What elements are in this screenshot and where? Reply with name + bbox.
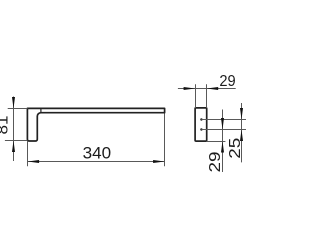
dimension 29 top: left extension line xyxy=(195,84,197,108)
dimension 340: right extension line xyxy=(164,114,166,167)
dimension 81: dimension line xyxy=(13,97,15,162)
svg-text:29: 29 xyxy=(219,73,235,90)
dimension 340: dimension line xyxy=(28,161,165,163)
screw hole top xyxy=(200,118,202,120)
screw hole bottom xyxy=(200,128,202,130)
plate bottom extension line xyxy=(207,141,226,143)
dimension 29 top: left arrow xyxy=(184,87,196,90)
dimension 29 top: right arrow xyxy=(207,87,219,90)
svg-text:29: 29 xyxy=(207,152,224,173)
dimension 81: bottom extension line xyxy=(5,140,28,142)
dimension 81: top extension line xyxy=(8,108,28,110)
dimension 81: top arrow xyxy=(12,97,15,109)
svg-text:340: 340 xyxy=(83,145,112,163)
dimension 29 right: bottom arrow xyxy=(221,141,224,153)
dimension 29 right: top arrow xyxy=(221,118,224,130)
post/bar seam line xyxy=(40,108,42,112)
hole centerline top xyxy=(201,119,246,121)
svg-text:25: 25 xyxy=(227,138,244,159)
svg-text:81: 81 xyxy=(0,116,11,135)
dimension 25: dimension line xyxy=(241,103,243,162)
dimension 25: bottom arrow xyxy=(240,130,243,142)
dimension 340: left extension line xyxy=(27,141,29,166)
hole centerline bottom xyxy=(201,129,246,131)
dimension 29 right: dimension line xyxy=(222,110,224,173)
wall plate front view xyxy=(195,108,207,141)
dimension 25: top arrow xyxy=(240,108,243,120)
dimension 29 top: dimension line xyxy=(178,88,236,90)
towel bar side view outline xyxy=(27,108,164,141)
dimension 340: right arrow xyxy=(153,160,165,163)
dimension 81: bottom arrow xyxy=(12,141,15,153)
dimension 340: left arrow xyxy=(28,160,39,163)
dimension 29 top: right extension line xyxy=(206,84,208,108)
